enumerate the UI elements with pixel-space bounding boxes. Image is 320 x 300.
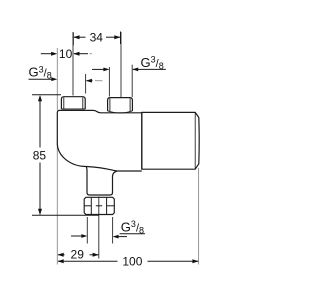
- right cylinder: [142, 112, 199, 169]
- dimension 29: [58, 254, 65, 256]
- left port right-edge arrow: [87, 80, 93, 82]
- extension outlet thread left x=87.3: [86, 217, 88, 244]
- dimension 100: [58, 260, 118, 262]
- right port left-edge arrow: [92, 68, 104, 70]
- svg-text:85: 85: [33, 148, 47, 162]
- extension line body left edge x=57.3: [56, 48, 58, 265]
- left port: [61, 97, 85, 109]
- extension right port right edge x=132.2: [131, 65, 133, 97]
- left edge + funnel curve + outlet pipe: [57, 110, 142, 195]
- extension outlet thread right x=112.6: [112, 217, 114, 244]
- svg-text:29: 29: [71, 248, 85, 262]
- svg-text:100: 100: [122, 254, 142, 268]
- outlet centerline x=98.8: [98, 197, 100, 259]
- dimension 10: [41, 53, 92, 55]
- centerline left port x=73: [72, 32, 74, 96]
- svg-text:10: 10: [59, 47, 73, 61]
- dimension 34: [73, 32, 120, 46]
- top edge with step: [60, 110, 142, 112]
- centerline right port x=121: [120, 32, 122, 97]
- body outline: [57, 110, 199, 195]
- extension right port left edge x=109.4: [108, 67, 110, 97]
- extension line right cap x=198.6: [198, 168, 200, 265]
- outlet nut: [84, 197, 114, 214]
- svg-text:34: 34: [90, 30, 104, 44]
- extension left port right edge x=85.6: [85, 74, 87, 94]
- dimension 85: [32, 94, 61, 96]
- right port: [108, 98, 133, 113]
